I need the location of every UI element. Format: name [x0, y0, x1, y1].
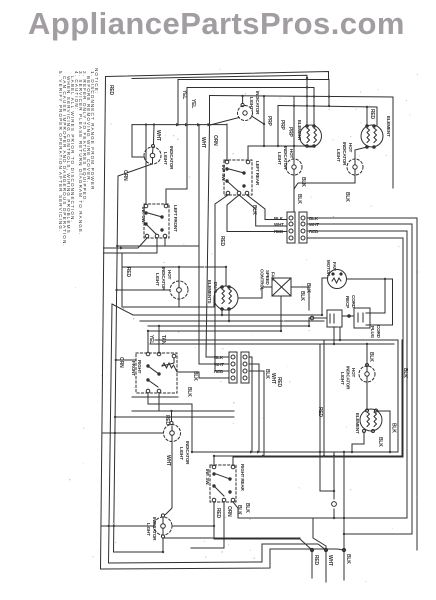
svg-text:INF. SW.: INF. SW.: [205, 469, 210, 485]
svg-text:BLK: BLK: [309, 216, 319, 221]
svg-text:CORD: CORD: [376, 325, 381, 339]
svg-text:INF. SW.: INF. SW.: [221, 165, 226, 181]
svg-text:YEL: YEL: [190, 99, 196, 108]
svg-text:INDICATOR: INDICATOR: [283, 146, 288, 170]
wire orn left vertical: [114, 164, 164, 552]
svg-text:RED: RED: [369, 109, 375, 120]
wire ind1 right prp: [252, 116, 265, 124]
hot ind 1: [286, 159, 302, 175]
element 2: [361, 125, 383, 147]
svg-text:HOT: HOT: [348, 143, 353, 152]
svg-text:BLK: BLK: [296, 194, 302, 204]
svg-text:DUAL: DUAL: [213, 282, 218, 294]
wire rr bottom blk: [233, 502, 238, 518]
svg-text:RED: RED: [215, 508, 221, 519]
wire rf bottom 1: [148, 393, 192, 452]
indicator light bottom: [154, 517, 172, 535]
wire cord recp bottom: [333, 327, 335, 344]
svg-text:WHT: WHT: [309, 222, 319, 227]
left front switch: [144, 204, 169, 238]
svg-text:ORN: ORN: [122, 170, 128, 181]
svg-text:CORD: CORD: [351, 295, 356, 309]
svg-text:WHT: WHT: [214, 362, 224, 367]
svg-text:BLK: BLK: [274, 216, 284, 221]
fan speed control: [272, 278, 291, 296]
svg-text:BLK: BLK: [244, 503, 250, 513]
svg-text:LIGHT: LIGHT: [249, 97, 254, 110]
svg-text:FRONT: FRONT: [131, 361, 136, 376]
svg-text:LIGHT: LIGHT: [336, 149, 341, 162]
svg-text:YEL: YEL: [181, 90, 187, 99]
svg-text:ELEMENT: ELEMENT: [355, 413, 360, 434]
svg-text:BLK: BLK: [344, 192, 350, 202]
wire y344: [150, 343, 394, 345]
svg-text:BLK: BLK: [402, 368, 408, 378]
pigtails: [311, 550, 313, 578]
wire lf bottom 2: [104, 238, 158, 253]
right rear switch: [210, 465, 236, 502]
svg-text:WHT: WHT: [327, 555, 333, 566]
wire wht vertical x199: [199, 125, 229, 364]
svg-text:INDICATOR: INDICATOR: [185, 441, 190, 465]
wire top bus 3 yel: [187, 88, 314, 126]
element 1: [300, 125, 322, 147]
hot ind 2: [347, 159, 363, 175]
svg-text:TAN: TAN: [160, 335, 166, 345]
indicator light mid: [164, 425, 181, 442]
notice text block: [58, 68, 99, 247]
wire top bus 5: [293, 97, 295, 159]
scan speckle: [69, 69, 418, 582]
svg-text:FAN: FAN: [332, 262, 337, 271]
svg-text:RED: RED: [309, 229, 319, 234]
wire tb1 right red: [307, 231, 407, 518]
wire top bus 1: [106, 72, 329, 80]
svg-text:WHT: WHT: [155, 130, 161, 141]
svg-text:PRP: PRP: [279, 120, 285, 131]
svg-text:ELEMENTS: ELEMENTS: [207, 280, 212, 304]
svg-text:BLK: BLK: [377, 437, 383, 447]
svg-text:LEFT REAR: LEFT REAR: [255, 161, 260, 186]
svg-text:LEFT FRONT: LEFT FRONT: [173, 205, 178, 232]
wire y518: [238, 517, 407, 519]
svg-text:YEL: YEL: [148, 335, 154, 344]
svg-text:HOT: HOT: [289, 149, 294, 158]
wire y340: [155, 340, 398, 452]
wire rf bottom 2: [159, 393, 234, 411]
logo AppliancePartsPros.com: [28, 6, 405, 42]
wire lr bottom 3: [247, 195, 287, 220]
wire rr bottom red: [214, 502, 312, 550]
svg-text:RED: RED: [108, 85, 114, 96]
svg-text:PLUG: PLUG: [370, 326, 375, 339]
wire top bus 2 yel: [178, 80, 329, 125]
svg-text:INDICATOR: INDICATOR: [346, 366, 351, 390]
svg-text:ORN: ORN: [226, 506, 232, 517]
wire hotind2 down diag: [294, 175, 355, 189]
terminal block 1: [287, 212, 307, 243]
wire bus y124: [132, 124, 227, 126]
svg-text:RIGHT: RIGHT: [137, 360, 142, 374]
wire mid bus 315: [112, 304, 322, 315]
svg-text:HOT: HOT: [167, 270, 172, 279]
svg-text:RED: RED: [164, 415, 170, 426]
wire red vertical pair: [320, 344, 334, 491]
wire lf bottom 1: [104, 238, 148, 248]
wire y146 prp bus: [248, 146, 314, 147]
wire element3 down: [377, 411, 390, 452]
wire hotind2 top diag: [355, 147, 367, 159]
svg-text:RED: RED: [214, 369, 224, 374]
svg-text:WHT: WHT: [165, 455, 171, 466]
svg-text:LIGHT: LIGHT: [277, 152, 282, 165]
svg-text:RED: RED: [276, 377, 282, 388]
wire tb1 right wht: [307, 224, 412, 534]
wire oven bus 456: [214, 455, 402, 457]
wire mid bus 321: [140, 320, 324, 322]
svg-text:LIGHT: LIGHT: [340, 372, 345, 385]
indicator light 2: [144, 147, 161, 164]
svg-text:MOTOR: MOTOR: [326, 260, 331, 277]
svg-text:WHT: WHT: [270, 373, 276, 384]
wire top bus 4: [210, 96, 394, 189]
svg-text:CONTROL: CONTROL: [260, 269, 265, 291]
hot ind 4: [359, 366, 375, 382]
wire lr bottom 1: [215, 195, 229, 371]
svg-text:ELEMENT: ELEMENT: [386, 116, 391, 137]
svg-text:PRP: PRP: [266, 116, 272, 127]
svg-text:ELEMENT: ELEMENT: [297, 120, 302, 141]
wire wht drop ind2: [153, 125, 156, 145]
svg-text:ORN: ORN: [212, 135, 218, 146]
svg-text:PRP: PRP: [287, 127, 293, 138]
svg-text:INDICATOR: INDICATOR: [169, 146, 174, 170]
wire orn vertical x211: [206, 125, 210, 357]
wire x313 down: [313, 518, 326, 550]
dual elements: [214, 286, 238, 310]
wire rf right blk: [199, 372, 229, 378]
svg-text:BLK: BLK: [214, 355, 224, 360]
wire inner bottom frame: [109, 304, 327, 563]
wire ind2 left lead: [132, 125, 145, 157]
svg-text:BLK: BLK: [186, 387, 192, 397]
cord plug: [354, 308, 370, 328]
svg-text:BLK: BLK: [192, 371, 198, 381]
fan motor: [328, 270, 347, 289]
wire y417: [115, 416, 234, 418]
svg-text:LIGHT: LIGHT: [163, 152, 168, 165]
cord recp: [327, 310, 342, 327]
left rear switch: [224, 160, 252, 195]
wire y267: [122, 266, 226, 268]
wire lf bottom 3: [165, 238, 199, 246]
wire lr bottom 2: [239, 195, 287, 226]
svg-text:BLK: BLK: [264, 369, 270, 379]
wire mid bus 326: [148, 325, 309, 327]
wire ind1 top lead: [242, 96, 244, 104]
indicator light 1: [238, 106, 253, 121]
wire mid bus 331: [148, 330, 281, 332]
wire tb1 right blk: [307, 218, 417, 550]
svg-text:INDICATOR: INDICATOR: [342, 142, 347, 166]
svg-text:BLK: BLK: [236, 505, 242, 515]
svg-text:5. VERIFY PROPER OPERATION AFT: 5. VERIFY PROPER OPERATION AFTER SERVICI…: [58, 71, 63, 232]
wire fan motor left riser: [322, 278, 328, 315]
hot ind 3: [170, 281, 188, 299]
svg-text:RED: RED: [317, 407, 323, 418]
svg-text:RED: RED: [125, 267, 131, 278]
svg-text:LIGHT: LIGHT: [179, 447, 184, 460]
svg-text:RED: RED: [219, 236, 225, 247]
svg-text:LIGHT: LIGHT: [146, 523, 151, 536]
wire hotind1 down blk: [293, 175, 295, 212]
wire fan motor right: [347, 279, 393, 325]
wire x344: [343, 452, 345, 550]
svg-text:HOT: HOT: [351, 368, 356, 377]
svg-text:RECP: RECP: [345, 296, 350, 308]
wire ind1 left lead: [210, 118, 239, 126]
wire rr bottom orn: [191, 502, 224, 548]
svg-text:INDICATOR: INDICATOR: [161, 267, 166, 291]
svg-text:BLK: BLK: [368, 352, 374, 362]
svg-text:ORN: ORN: [118, 357, 124, 368]
svg-text:FAN: FAN: [271, 272, 276, 281]
wire outer bottom: [101, 549, 345, 569]
svg-text:BLK: BLK: [345, 554, 351, 564]
svg-text:BLK: BLK: [391, 423, 397, 433]
svg-text:INDICATOR: INDICATOR: [152, 517, 157, 541]
wire tb2 right down: [249, 357, 252, 452]
svg-text:BLK: BLK: [251, 205, 257, 215]
svg-text:RED: RED: [274, 229, 284, 234]
wire red riser element2: [366, 108, 368, 124]
terminal block 2: [229, 352, 249, 383]
wire y246: [117, 245, 165, 247]
svg-text:WHT: WHT: [274, 222, 284, 227]
svg-text:LIGHT: LIGHT: [155, 273, 160, 286]
wire left mid rect red: [122, 253, 179, 307]
svg-text:BLK: BLK: [300, 177, 306, 187]
wire tb1 right 4: [233, 238, 403, 457]
right front switch: [136, 353, 177, 393]
wire x334: [333, 452, 335, 499]
svg-text:BLK: BLK: [299, 291, 305, 301]
svg-text:INDICATOR: INDICATOR: [255, 91, 260, 115]
wire left frame vertical: [101, 77, 106, 569]
wire oven bus 452: [192, 451, 398, 453]
svg-text:RIGHT REAR: RIGHT REAR: [240, 464, 245, 491]
element 3: [360, 409, 382, 431]
svg-text:WHT: WHT: [200, 137, 206, 148]
wire top bus 6: [278, 106, 377, 127]
svg-text:RED: RED: [313, 555, 319, 566]
svg-text:SPEED: SPEED: [265, 270, 270, 285]
svg-text:INF. SW.: INF. SW.: [141, 207, 146, 223]
